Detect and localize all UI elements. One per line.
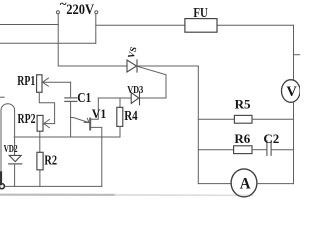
resistor R2 <box>39 137 41 152</box>
wire right terminal down <box>95 14 97 44</box>
potentiometer RP2 <box>37 115 43 131</box>
svg-text:R4: R4 <box>124 108 138 123</box>
wire thyristor cathode right <box>137 65 198 67</box>
wire arch hop left <box>1 104 15 177</box>
base2 lead <box>91 98 98 119</box>
RP1 wiper arrow <box>43 81 71 83</box>
transistor V1 (UJT) <box>71 98 102 186</box>
svg-text:RP1: RP1 <box>17 73 35 88</box>
wire VD3 anode left <box>98 97 131 99</box>
svg-text:C2: C2 <box>263 131 279 146</box>
svg-text:RP2: RP2 <box>18 111 36 126</box>
connector blob bottom left <box>0 173 2 185</box>
thyristor VS <box>127 60 137 72</box>
terminal right of ~220V <box>95 11 98 14</box>
svg-text:VD3: VD3 <box>127 85 143 96</box>
potentiometer RP1 <box>37 75 42 93</box>
wire left mains feed top <box>0 24 58 26</box>
svg-text:VS: VS <box>126 46 139 60</box>
wire R2 bottom <box>39 170 41 187</box>
emitter lead with arrow <box>71 118 90 123</box>
terminal left of ~220V <box>56 11 59 14</box>
capacitor C1 <box>70 82 72 98</box>
bar <box>89 119 91 130</box>
wire to fuse <box>96 24 294 26</box>
ammeter A row <box>198 183 231 185</box>
wire stub left edge <box>0 96 4 98</box>
diode VD3 <box>131 91 139 105</box>
wire mid vertical x198 <box>197 66 199 184</box>
svg-text:R6: R6 <box>234 131 250 146</box>
resistor R5 row <box>198 118 234 120</box>
svg-text:FU: FU <box>193 6 208 21</box>
wire R4 bottom <box>14 126 120 137</box>
resistor R4 <box>119 98 121 108</box>
ammeter A <box>231 169 257 197</box>
base1 lead <box>91 127 102 186</box>
wire main y66 to thyristor <box>58 65 127 67</box>
svg-text:220V: 220V <box>66 2 94 18</box>
svg-text:R5: R5 <box>235 97 251 112</box>
svg-text:V: V <box>286 84 297 100</box>
diode VD2 <box>14 137 16 155</box>
wire left mains feed bottom <box>0 42 96 44</box>
wire stub right edge <box>294 54 301 56</box>
svg-text:VD2: VD2 <box>4 144 18 155</box>
svg-text:C1: C1 <box>77 90 91 105</box>
wire voltmeter down <box>293 102 295 184</box>
wire bottom left <box>4 185 102 187</box>
resistor R6 row <box>198 149 233 151</box>
wire left terminal down <box>57 14 59 66</box>
wire right vertical to voltmeter <box>293 25 295 80</box>
wire C1 bottom <box>70 102 72 138</box>
svg-text:R2: R2 <box>44 153 57 168</box>
svg-text:V1: V1 <box>92 107 107 121</box>
wire RP2 bottom <box>39 131 41 137</box>
RP2 wiper arrow <box>44 123 55 125</box>
capacitor C2 <box>266 141 268 155</box>
wire RP1 bottom zigzag <box>39 92 54 123</box>
fuse FU <box>185 19 217 33</box>
wire gate of VS <box>137 66 166 98</box>
voltmeter V <box>282 80 301 103</box>
scan smudge bottom edge <box>0 194 115 196</box>
svg-text:A: A <box>240 176 252 193</box>
